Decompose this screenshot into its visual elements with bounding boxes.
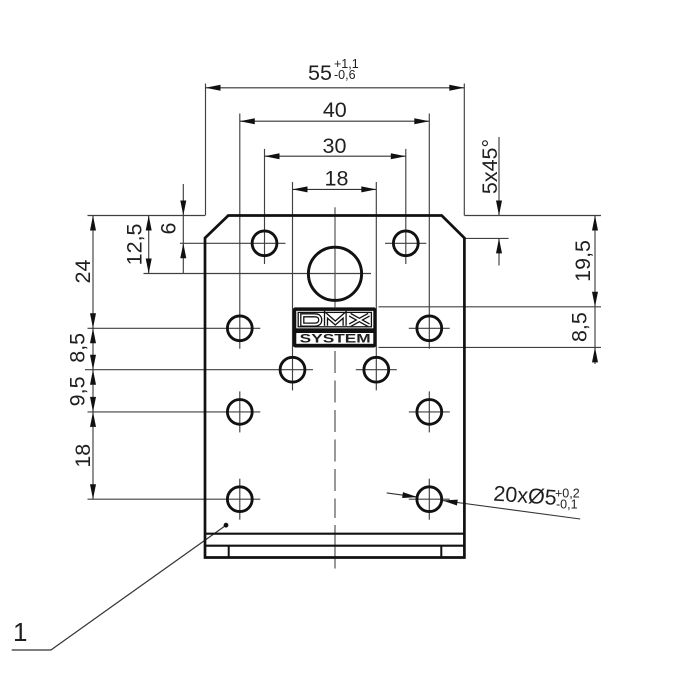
arrowhead 8,5 left down: [90, 355, 96, 370]
extension line 55 right: [463, 84, 465, 216]
extension line 30 left / hole column: [264, 149, 266, 264]
extension line 6 / crosshair hole row1 left: [180, 242, 286, 244]
hole row2 left: [227, 316, 252, 341]
crosshair hole row3 right: [356, 369, 397, 371]
dimension line 30: [265, 155, 406, 157]
extension line top edge right: [465, 215, 602, 217]
extension line 18 right / hole column: [375, 182, 377, 390]
extension line 18 left / hole column: [292, 182, 294, 390]
centerline dashed part: [334, 351, 336, 569]
arrowhead 24 up: [90, 216, 96, 231]
extension line logo bottom: [379, 346, 602, 348]
extension line 12,5 / crosshair big hole: [144, 273, 372, 275]
plate bottom divider left: [228, 546, 230, 558]
extension line 24 / crosshair hole row2 left: [88, 327, 261, 329]
plate outline with chamfers: [205, 216, 464, 558]
plate bottom divider right: [440, 546, 442, 558]
arrowhead 55 left: [206, 85, 221, 91]
crosshair hole row4 right: [409, 411, 450, 413]
big central hole: [308, 247, 361, 300]
arrowhead leader into hole right edge: [442, 498, 458, 506]
arrowhead leader into hole left edge: [402, 492, 418, 500]
dimension line 12,5: [148, 216, 150, 274]
dimension line 18 top: [293, 188, 377, 190]
arrowhead 6 up outside: [180, 243, 186, 258]
extension line top edge left: [88, 215, 206, 217]
arrowhead 30 right: [391, 153, 406, 159]
extension line 40 left / hole column: [239, 114, 241, 349]
arrowhead 9,5 up: [90, 370, 96, 385]
crosshair hole row5 right: [409, 498, 450, 500]
arrowhead 9,5 down: [90, 397, 96, 412]
arrowhead 18 left up: [90, 412, 96, 427]
arrowhead 18 top left: [293, 186, 308, 192]
leader line 20xO5 right segment: [443, 501, 581, 520]
hole row5 right: [417, 487, 442, 512]
svg-text:40: 40: [323, 98, 347, 122]
svg-text:1: 1: [13, 617, 27, 647]
centerline solid part: [334, 207, 336, 307]
dimension line 40: [240, 120, 429, 122]
crosshair vertical hole row4 right: [428, 391, 430, 432]
arrowhead 8,5 left up: [90, 328, 96, 343]
crosshair hole row1 right: [385, 242, 426, 244]
arrowhead 5x45 up: [496, 238, 502, 253]
arrowhead 19,5 up: [592, 216, 598, 231]
dimension line 6 with tails: [182, 184, 184, 273]
leader line item 1: [12, 525, 226, 650]
extension line logo top: [379, 306, 602, 308]
extension line 18 / crosshair hole row5 left: [88, 498, 261, 500]
crosshair hole row2 right: [409, 327, 450, 329]
hole row3 left: [280, 357, 305, 382]
crosshair vertical hole row5 right: [428, 479, 430, 520]
plate bottom groove line B: [205, 545, 464, 547]
svg-text:8,5: 8,5: [568, 312, 592, 342]
extension line 9,5 / crosshair hole row4 left: [88, 411, 261, 413]
DMX SYSTEM logo plate: [293, 307, 377, 347]
arrowhead 6 down outside: [180, 201, 186, 216]
hole row1 right: [393, 231, 418, 256]
dimension line 24 8,5 9,5 18 left: [92, 216, 94, 500]
svg-text:9,5: 9,5: [66, 376, 90, 406]
hole row2 right: [417, 316, 442, 341]
extension line 30 right / hole column: [405, 149, 407, 264]
plate bottom groove line A: [205, 533, 464, 535]
hole row1 left: [252, 231, 277, 256]
hole row5 left: [227, 487, 252, 512]
arrowhead 40 left: [240, 118, 255, 124]
svg-text:SYSTEM: SYSTEM: [300, 331, 371, 345]
svg-text:5x45°: 5x45°: [478, 139, 502, 194]
arrowhead 5x45 down: [496, 201, 502, 216]
hole row3 right: [364, 357, 389, 382]
svg-text:20xØ5: 20xØ5: [493, 482, 558, 510]
arrowhead 19,5 down: [592, 292, 598, 307]
arrowhead 12,5 down: [146, 259, 152, 274]
extension line 55 left: [205, 84, 207, 216]
svg-text:6: 6: [157, 222, 181, 234]
svg-text:30: 30: [323, 134, 347, 158]
dimension line 5x45 upper: [498, 137, 500, 216]
arrowhead 30 left: [265, 153, 280, 159]
arrowhead 8,5 right up: [592, 347, 598, 362]
crosshair vertical hole row5 left: [239, 479, 241, 520]
dimension line 55: [206, 87, 465, 89]
svg-text:18: 18: [325, 167, 349, 191]
svg-text:12,5: 12,5: [123, 223, 147, 265]
svg-text:19,5: 19,5: [571, 240, 595, 282]
svg-text:8,5: 8,5: [66, 333, 90, 363]
dimension line 5x45 lower tail: [498, 238, 500, 265]
dimension line 19,5 and 8,5 right: [594, 216, 596, 365]
arrowhead 18 left down: [90, 484, 96, 499]
arrowhead 55 right: [449, 85, 464, 91]
extension line 40 right / hole column: [428, 114, 430, 349]
svg-text:-0,1: -0,1: [556, 497, 578, 511]
extension line 8,5 / crosshair hole row3 left: [85, 369, 313, 371]
arrowhead 40 right: [414, 118, 429, 124]
hole row4 left: [227, 400, 252, 425]
extension line chamfer bottom right: [465, 237, 509, 239]
leader dot item 1: [224, 523, 229, 528]
arrowhead 12,5 up: [146, 216, 152, 231]
svg-text:-0,6: -0,6: [334, 68, 356, 82]
arrowhead 18 top right: [361, 186, 376, 192]
leader line 20xO5 left segment: [387, 493, 418, 497]
crosshair vertical hole row4 left: [239, 391, 241, 432]
arrowhead 24 down: [90, 313, 96, 328]
svg-text:18: 18: [71, 444, 95, 468]
svg-text:55: 55: [308, 61, 332, 85]
hole row4 right: [417, 400, 442, 425]
svg-text:24: 24: [71, 260, 95, 284]
